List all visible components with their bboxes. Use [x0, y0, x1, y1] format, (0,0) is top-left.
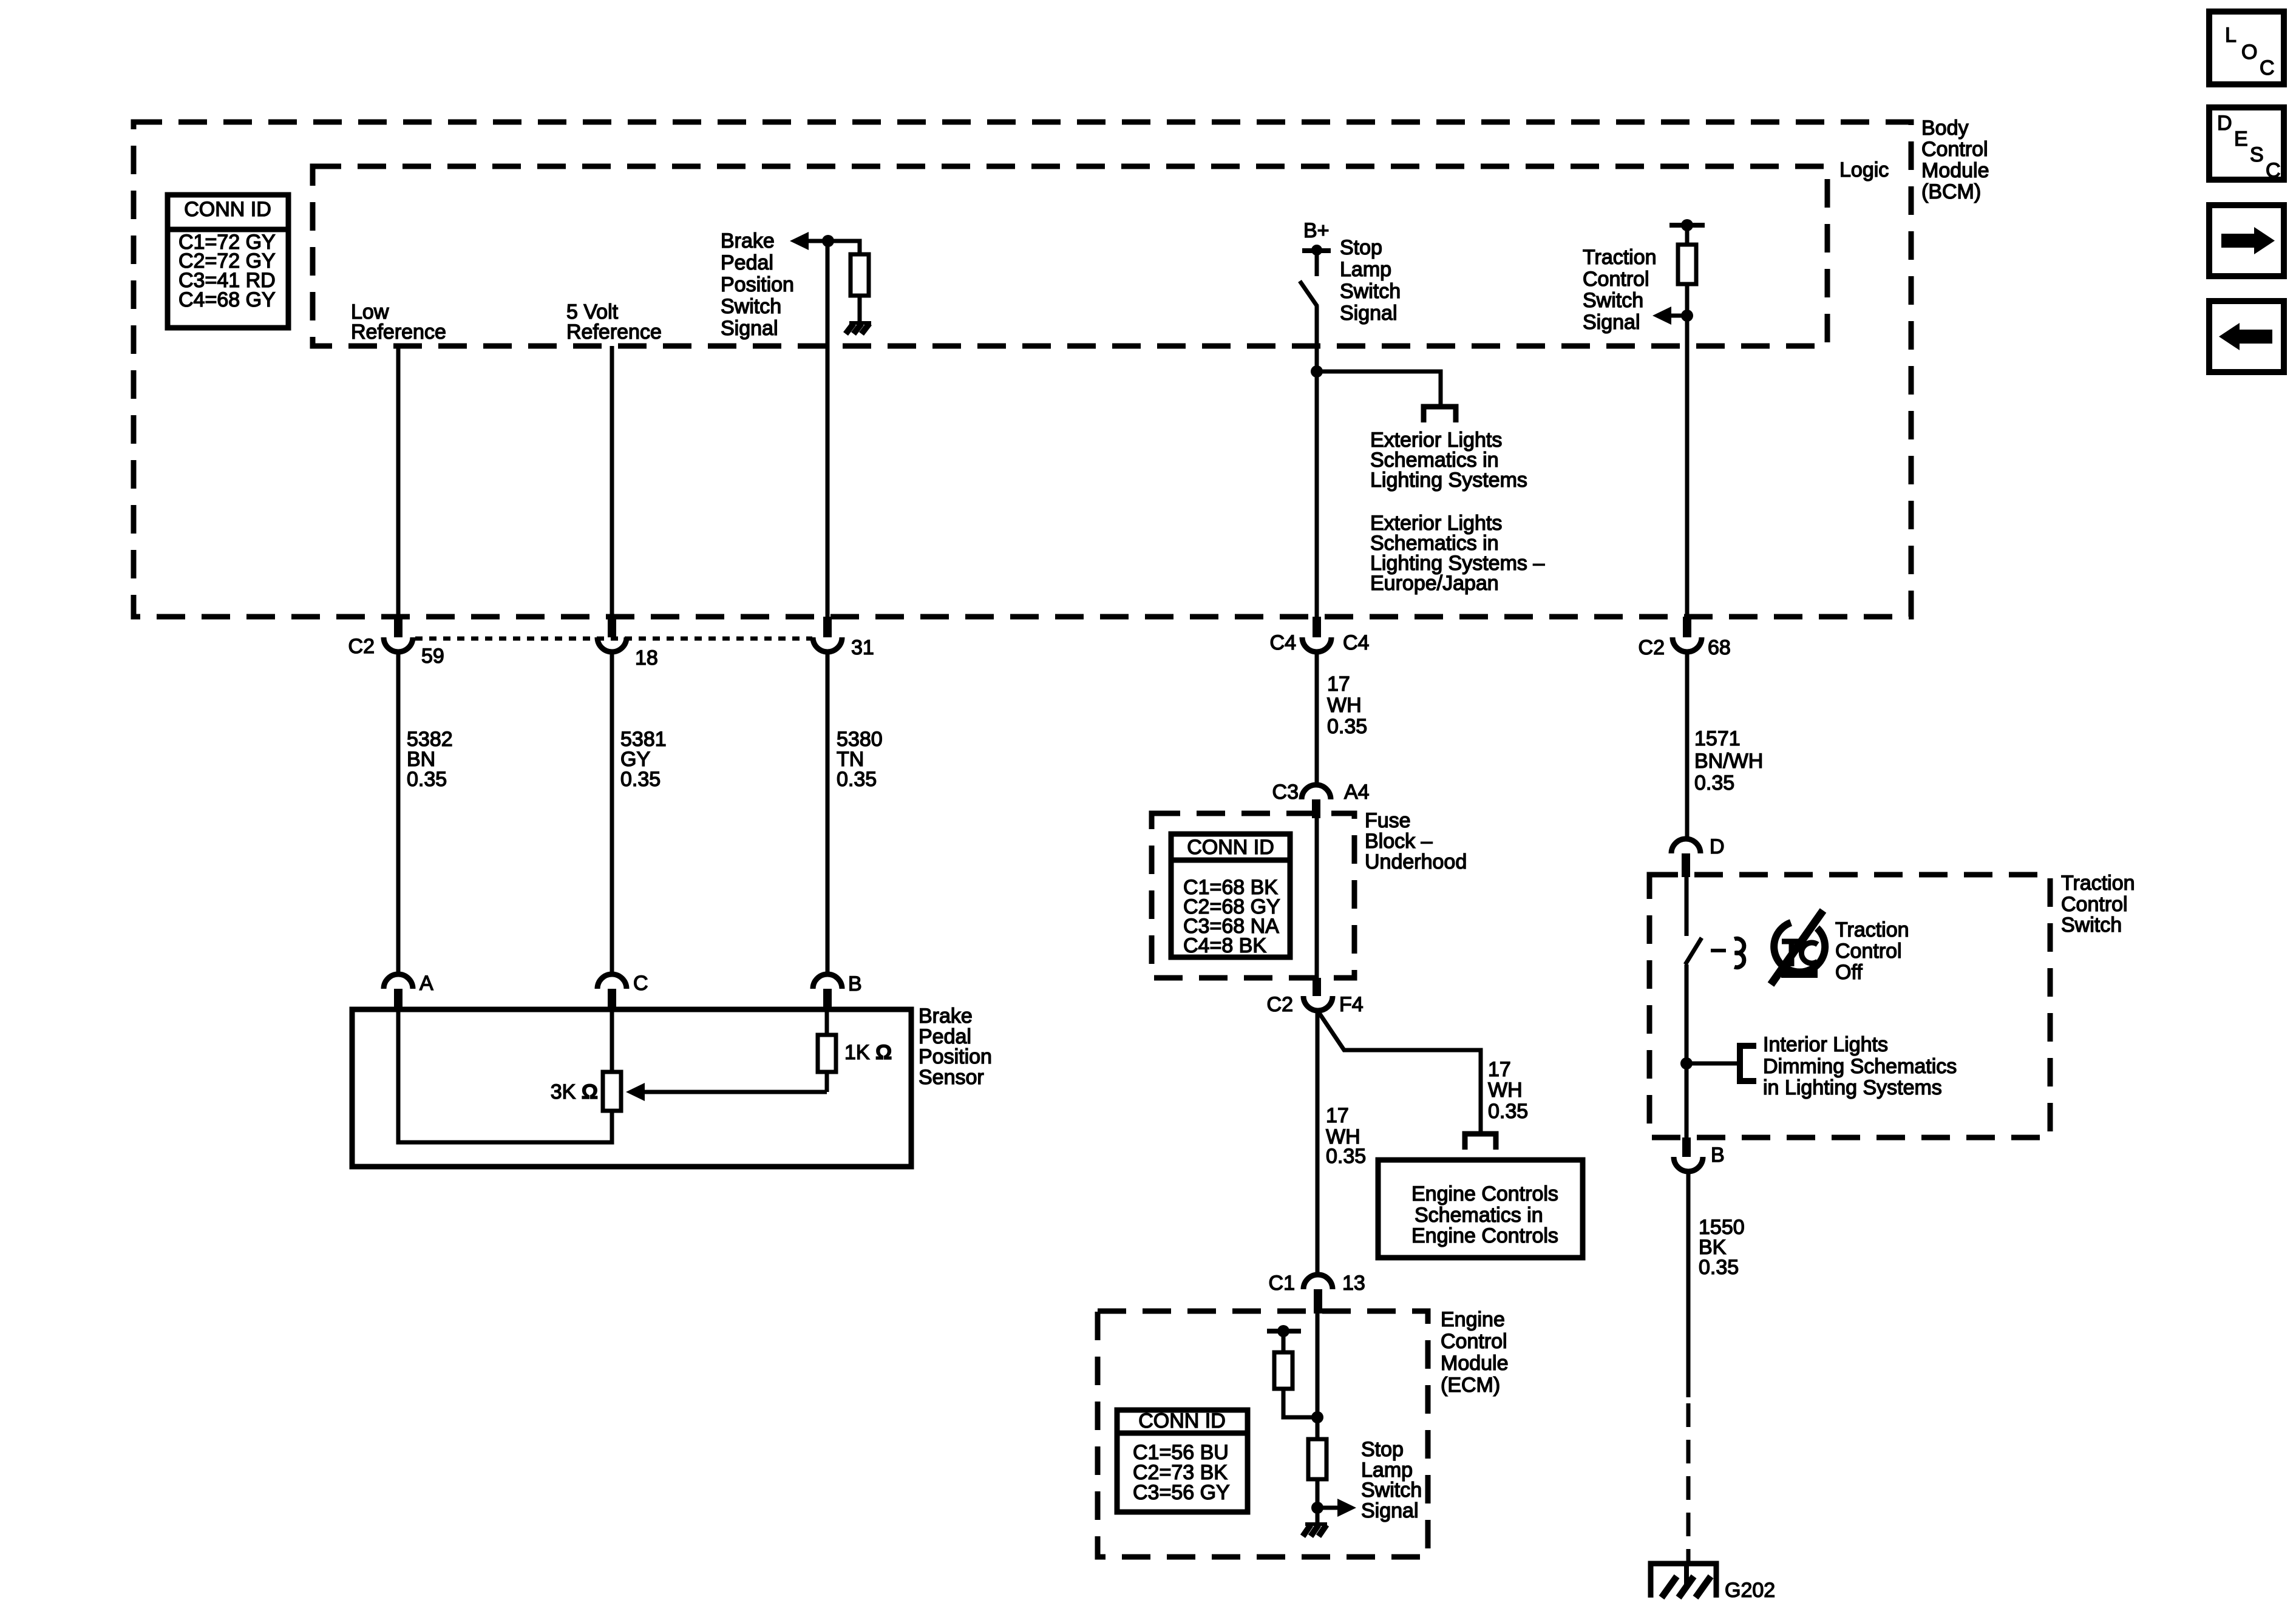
svg-text:Exterior LightsSchematics inLi: Exterior LightsSchematics inLighting Sys…: [1370, 512, 1544, 595]
value label: 1K ohm: [844, 1041, 892, 1064]
svg-text:C2: C2: [1267, 993, 1293, 1016]
module box: Fuse Block - Underhood: [1152, 813, 1354, 978]
connector: C2 pin F4: [1267, 978, 1364, 1016]
svg-text:1K Ω: 1K Ω: [844, 1041, 892, 1064]
ground: G202: [1651, 1564, 1716, 1598]
wire: branch to engine controls: [1318, 1011, 1481, 1131]
connector: C2 pin 18: [597, 617, 658, 670]
svg-text:A4: A4: [1344, 781, 1370, 804]
ground: ECM ground: [1303, 1522, 1327, 1536]
module box: Engine Control Module (ECM): [1098, 1311, 1428, 1557]
connector: pin C: [597, 972, 648, 1012]
svg-text:StopLampSwitchSignal: StopLampSwitchSignal: [1340, 236, 1401, 325]
wire: sensor 5v side: [610, 1009, 614, 1072]
node: 5 Volt Reference: [566, 300, 662, 344]
connector: C3 pin A4: [1272, 781, 1370, 818]
svg-text:TractionControlOff: TractionControlOff: [1835, 918, 1909, 984]
svg-text:1550BK0.35: 1550BK0.35: [1699, 1216, 1745, 1279]
svg-text:E: E: [2234, 127, 2248, 151]
svg-text:LowReference: LowReference: [351, 300, 446, 344]
label: G202: [1725, 1579, 1775, 1602]
svg-text:C2: C2: [348, 635, 375, 658]
svg-text:B+: B+: [1303, 219, 1330, 242]
svg-text:18: 18: [635, 646, 658, 670]
label: Brake Pedal Position Sensor: [919, 1005, 992, 1089]
svg-text:TractionControlSwitchSignal: TractionControlSwitchSignal: [1583, 246, 1657, 334]
svg-text:BrakePedalPositionSwitchSignal: BrakePedalPositionSwitchSignal: [721, 229, 794, 340]
ground: brake pull-down ground: [846, 321, 871, 334]
svg-text:C1=56 BUC2=73 BKC3=56 GY: C1=56 BUC2=73 BKC3=56 GY: [1133, 1441, 1230, 1504]
resistor: brake signal pull-down: [851, 254, 869, 296]
svg-text:Exterior LightsSchematics inLi: Exterior LightsSchematics inLighting Sys…: [1370, 429, 1527, 492]
resistor: traction pull-up: [1678, 245, 1696, 284]
switch linkage dash: [1711, 949, 1726, 952]
module box: Logic: [313, 166, 1827, 346]
svg-text:D: D: [2217, 112, 2232, 135]
module box: Traction Control Switch: [1649, 875, 2050, 1137]
svg-text:B: B: [848, 972, 862, 995]
svg-text:S: S: [2250, 143, 2264, 166]
power bar: ECM pull-up: [1267, 1325, 1301, 1337]
svg-text:31: 31: [851, 636, 874, 659]
switch: stop lamp switch: [1300, 281, 1317, 307]
svg-text:B: B: [1711, 1144, 1725, 1167]
icon: DESC button: [2209, 107, 2284, 182]
power: B+: [1302, 219, 1331, 276]
svg-text:C1=72 GYC2=72 GYC3=41 RDC4=68: C1=72 GYC2=72 GYC3=41 RDC4=68 GY: [178, 231, 276, 311]
svg-text:Logic: Logic: [1839, 158, 1889, 181]
resistor: ECM series: [1308, 1439, 1326, 1479]
svg-text:F4: F4: [1339, 993, 1364, 1016]
arrow: brake pedal position switch signal (points left): [790, 232, 828, 250]
svg-text:C1: C1: [1269, 1272, 1295, 1295]
label: Traction Control Off: [1835, 918, 1909, 984]
wire: 1550 BK dashed continuation: [1686, 1403, 1691, 1550]
label: Fuse Block - Underhood: [1365, 809, 1467, 873]
svg-text:G202: G202: [1725, 1579, 1775, 1602]
wire: traction switch signal: [1685, 284, 1690, 617]
junction: interior lights branch: [1680, 1057, 1693, 1070]
icon: back arrow button: [2209, 301, 2284, 372]
junction: brake signal node: [822, 235, 834, 247]
svg-text:FuseBlock –Underhood: FuseBlock –Underhood: [1365, 809, 1467, 873]
label: 17 WH 0.35 (branch): [1488, 1058, 1528, 1123]
wire: switch feed: [1685, 877, 1689, 936]
label: 1571 BN/WH 0.35: [1694, 727, 1763, 795]
svg-text:17WH0.35: 17WH0.35: [1326, 1104, 1366, 1168]
label: Traction Control Switch Signal: [1583, 246, 1657, 334]
svg-text:5382BN0.35: 5382BN0.35: [407, 728, 453, 791]
svg-text:L: L: [2225, 24, 2237, 47]
label: 1550 BK 0.35: [1699, 1216, 1745, 1279]
connector: C1 pin 13: [1269, 1272, 1365, 1314]
svg-text:C4: C4: [1270, 631, 1296, 654]
icon: forward arrow button: [2209, 205, 2284, 276]
wire: 1550 BK solid: [1686, 1171, 1691, 1397]
label: Stop Lamp Switch Signal (BCM): [1340, 236, 1401, 325]
svg-text:5381GY0.35: 5381GY0.35: [620, 728, 667, 791]
svg-text:TractionControlSwitch: TractionControlSwitch: [2061, 872, 2135, 937]
label: Exterior Lights Schematics in Lighting Systems: [1370, 429, 1527, 492]
svg-text:EngineControlModule(ECM): EngineControlModule(ECM): [1441, 1308, 1509, 1397]
connector table: CONN ID (Fuse Block): [1171, 834, 1290, 957]
wire: inside fuse block: [1315, 818, 1319, 978]
svg-text:C: C: [2260, 56, 2275, 80]
svg-text:C: C: [633, 972, 648, 995]
label: Interior Lights Dimming Schematics in Lighting Systems: [1763, 1033, 1957, 1099]
off-page bracket: engine controls: [1465, 1134, 1496, 1150]
wire: 17 WH to fuse block: [1315, 652, 1319, 786]
junction: ECM signal node: [1311, 1502, 1323, 1514]
junction: ECM pull-up node: [1311, 1411, 1323, 1423]
svg-text:Engine ControlsSchematics inEn: Engine ControlsSchematics inEngine Contr…: [1411, 1182, 1558, 1247]
label: Stop Lamp Switch Signal (ECM): [1361, 1438, 1422, 1522]
svg-text:C2: C2: [1639, 636, 1665, 659]
wire: junction to pull-down resistor: [828, 241, 860, 254]
connector: pin A: [384, 972, 433, 1012]
node: Low Reference: [351, 300, 446, 344]
connector table: CONN ID (BCM): [168, 195, 288, 328]
label: Brake Pedal Position Switch Signal: [721, 229, 794, 340]
wire: branch to interior lights: [1686, 1062, 1739, 1066]
svg-text:Interior LightsDimming Schemat: Interior LightsDimming Schematicsin Ligh…: [1763, 1033, 1957, 1099]
svg-text:5380TN0.35: 5380TN0.35: [837, 728, 883, 791]
label: 5382 BN 0.35: [407, 728, 453, 791]
svg-text:1571BN/WH0.35: 1571BN/WH0.35: [1694, 727, 1763, 795]
off-page bracket: interior lights: [1740, 1046, 1756, 1081]
label: Body Control Module (BCM): [1921, 117, 1989, 203]
label: 17 WH 0.35 (upper): [1327, 673, 1367, 738]
svg-text:C1=68 BKC2=68 GYC3=68 NAC4=8 B: C1=68 BKC2=68 GYC3=68 NAC4=8 BK: [1183, 876, 1280, 957]
svg-text:A: A: [419, 972, 433, 995]
label: Engine Control Module (ECM): [1441, 1308, 1509, 1397]
wire: 1571 BN/WH: [1685, 652, 1690, 840]
label: 5381 GY 0.35: [620, 728, 667, 791]
svg-text:59: 59: [421, 645, 444, 668]
wire: 5 volt reference: [610, 346, 614, 617]
svg-text:CONN ID: CONN ID: [1138, 1409, 1226, 1432]
connector: C2 pin 31: [813, 617, 874, 659]
junction: exterior lights branch: [1311, 365, 1323, 378]
wire: sensor low side: [398, 1009, 612, 1142]
arrow: stop lamp switch signal (ECM, points right): [1317, 1499, 1356, 1517]
svg-text:5 VoltReference: 5 VoltReference: [566, 300, 662, 344]
power bar: traction pull-up: [1669, 219, 1705, 245]
svg-text:O: O: [2241, 41, 2257, 64]
label: Traction Control Switch: [2061, 872, 2135, 937]
label: 5380 TN 0.35: [837, 728, 883, 791]
svg-text:CONN ID: CONN ID: [1187, 836, 1274, 859]
svg-text:3K Ω: 3K Ω: [551, 1080, 598, 1103]
svg-text:D: D: [1710, 835, 1725, 858]
wire: brake pedal position switch signal (to connector 31): [826, 241, 830, 617]
label: 17 WH 0.35 (lower): [1326, 1104, 1366, 1168]
switch linkage curl: [1734, 938, 1744, 967]
connector: pin B (traction): [1674, 1137, 1725, 1171]
off-page bracket: exterior lights: [1424, 407, 1456, 422]
wire: 1K to wiper: [825, 1072, 829, 1092]
wire: ECM input: [1316, 1311, 1320, 1439]
potentiometer: 3K: [603, 1072, 621, 1111]
svg-text:68: 68: [1708, 636, 1731, 659]
connector: C4 pin C4: [1270, 617, 1370, 654]
module box: Body Control Module (BCM): [134, 122, 1911, 617]
label: Logic: [1839, 158, 1889, 181]
svg-text:StopLampSwitchSignal: StopLampSwitchSignal: [1361, 1438, 1422, 1522]
wire: branch to exterior lights reference: [1317, 371, 1441, 404]
component box: Brake Pedal Position Sensor: [352, 1009, 911, 1167]
svg-text:13: 13: [1342, 1272, 1365, 1295]
svg-text:17WH0.35: 17WH0.35: [1327, 673, 1367, 738]
wire: resistor to ground: [858, 296, 862, 322]
wire: stop lamp switch signal: [1315, 306, 1319, 617]
wire: 5382 BN low reference: [396, 652, 401, 974]
connector interconnect dotted line C2: [415, 637, 812, 641]
wire: below switch: [1685, 964, 1689, 1137]
wire: fuse block to ECM: [1316, 1011, 1320, 1275]
svg-text:C3: C3: [1272, 781, 1299, 804]
arrow: traction control switch signal (points left): [1652, 307, 1693, 325]
svg-text:C: C: [2266, 159, 2281, 182]
connector: pin B: [813, 972, 862, 1012]
wire: resistor to signal node: [1316, 1479, 1320, 1525]
resistor: ECM pull-up: [1274, 1331, 1317, 1417]
svg-text:17WH0.35: 17WH0.35: [1488, 1058, 1528, 1123]
svg-text:BrakePedalPositionSensor: BrakePedalPositionSensor: [919, 1005, 992, 1089]
wire: sensor signal side: [825, 1009, 829, 1035]
svg-text:C4: C4: [1343, 631, 1369, 654]
connector: pin D: [1671, 835, 1725, 877]
wire: low reference: [396, 346, 401, 617]
icon: traction control off (TC): [1771, 910, 1825, 985]
resistor: 1K: [818, 1035, 836, 1072]
connector table: CONN ID (ECM): [1117, 1409, 1248, 1512]
wiper arrow: [626, 1083, 827, 1101]
value label: 3K ohm: [551, 1080, 598, 1103]
svg-text:CONN ID: CONN ID: [184, 198, 271, 221]
wire: 5380 TN brake pedal position signal: [826, 652, 830, 974]
label: Exterior Lights Schematics in Lighting Systems - Europe/Japan: [1370, 512, 1544, 595]
wire: to ground: [1686, 1550, 1691, 1565]
connector: C2 pin 59: [348, 617, 444, 668]
reference box: Engine Controls Schematics in Engine Controls: [1378, 1160, 1583, 1258]
wire: 5381 GY 5 volt reference: [610, 652, 614, 974]
connector: C2 pin 68: [1639, 617, 1731, 659]
icon: LOC button: [2209, 12, 2284, 84]
svg-text:BodyControlModule(BCM): BodyControlModule(BCM): [1921, 117, 1989, 203]
switch: traction control switch blade: [1685, 938, 1702, 964]
